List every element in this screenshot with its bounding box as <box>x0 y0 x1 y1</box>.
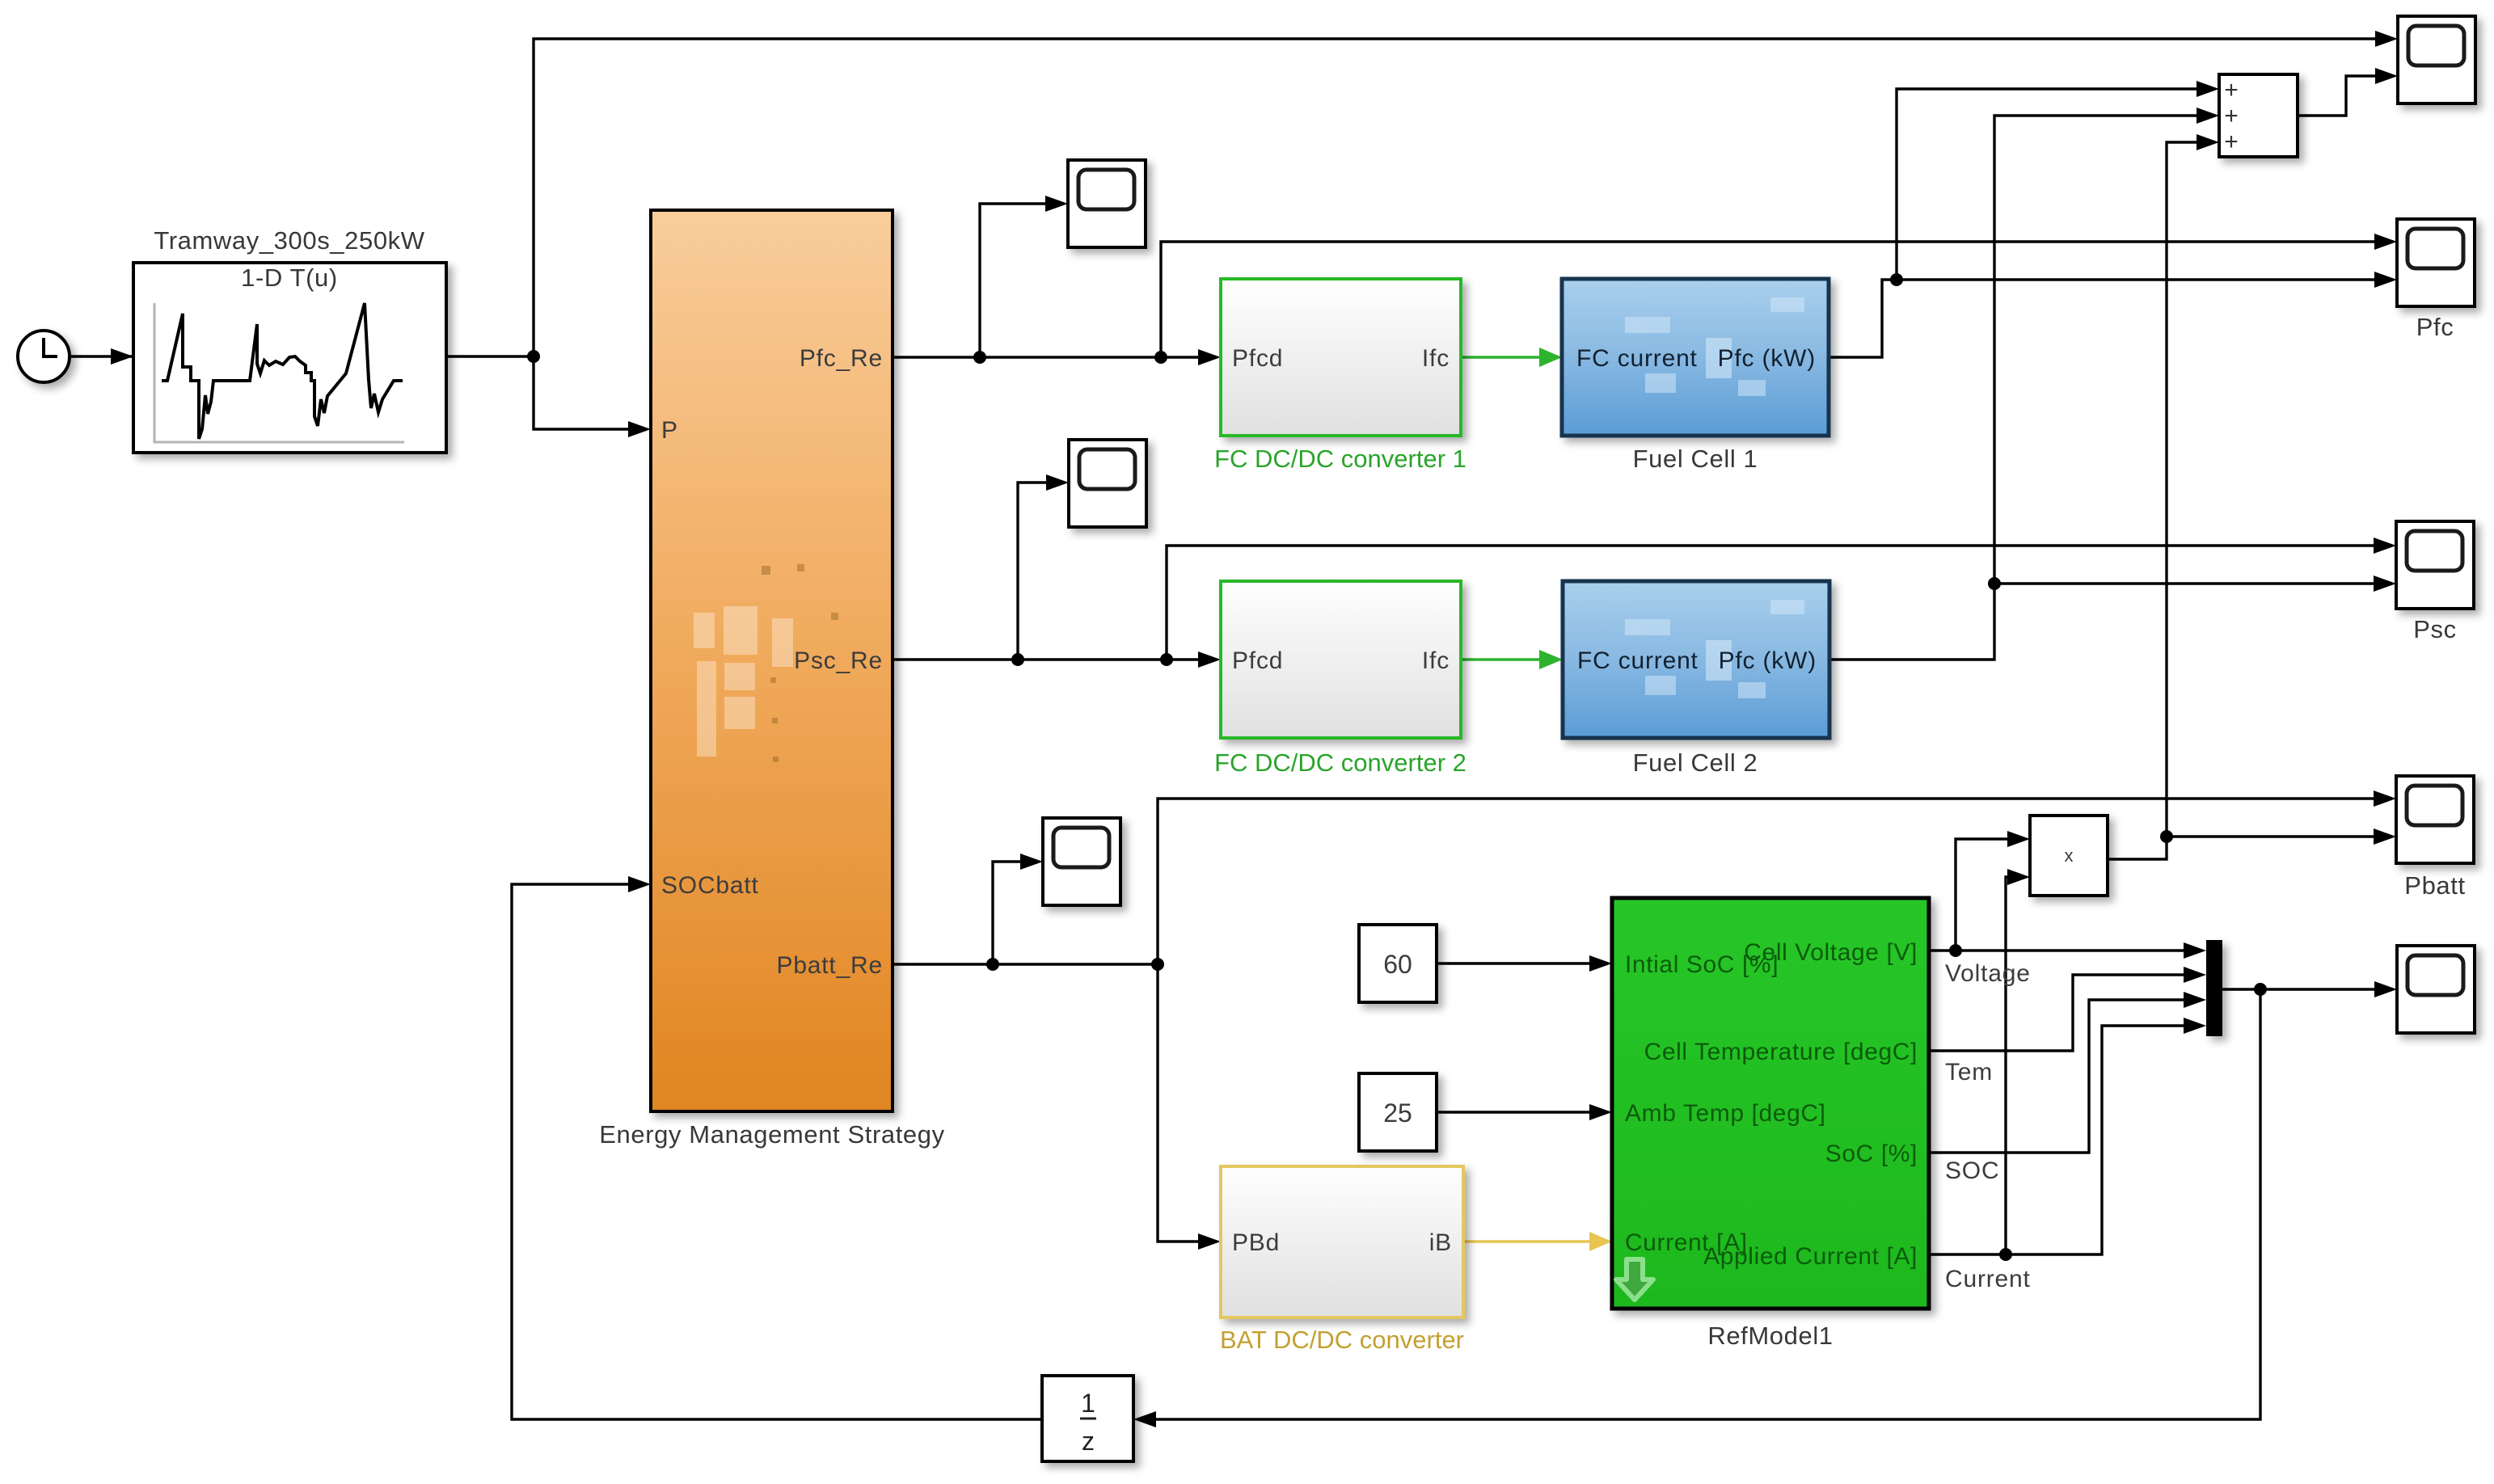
Voltage net label <box>1945 960 2031 987</box>
svg-text:Cell Voltage [V]: Cell Voltage [V] <box>1744 939 1918 966</box>
wire Cell Voltage output to mux input 1 <box>1929 942 2206 959</box>
Pfc scope <box>2397 219 2475 306</box>
svg-text:Pfc (kW): Pfc (kW) <box>1719 647 1817 674</box>
svg-text:Cell Temperature [degC]: Cell Temperature [degC] <box>1644 1039 1918 1065</box>
RefModel1 label <box>1707 1322 1833 1350</box>
Fuel Cell 1 label <box>1633 445 1758 473</box>
node junction on Pfc_Re at scope branch <box>973 351 986 364</box>
svg-text:Pfc (kW): Pfc (kW) <box>1718 345 1816 372</box>
node junction on Fuel Cell 1 output <box>1890 273 1903 286</box>
EMS block Energy Management Strategy <box>651 210 893 1111</box>
wire demand to top scope input 1 <box>534 31 2398 356</box>
lookup table title <box>154 226 424 255</box>
node junction on Pfc_Re at Pfc scope branch <box>1154 351 1167 364</box>
svg-text:Psc_Re: Psc_Re <box>794 647 883 674</box>
sum block <box>2219 74 2298 157</box>
svg-text:x: x <box>2065 845 2074 866</box>
svg-text:60: 60 <box>1383 950 1412 979</box>
svg-text:Pbatt: Pbatt <box>2404 871 2465 900</box>
svg-text:FC DC/DC converter 2: FC DC/DC converter 2 <box>1214 748 1466 777</box>
svg-text:Pfcd: Pfcd <box>1232 647 1283 674</box>
svg-text:Pfcd: Pfcd <box>1232 345 1283 372</box>
product block <box>2030 816 2108 896</box>
svg-text:+: + <box>2224 77 2239 103</box>
FC DC/DC converter 1 label <box>1214 445 1466 473</box>
svg-text:FC current: FC current <box>1577 647 1699 674</box>
wire lookup table output to junction <box>446 355 534 357</box>
svg-text:+: + <box>2224 103 2239 129</box>
floating scope 3 <box>1043 818 1120 905</box>
wire Cell Temperature output to mux input 2 <box>1929 967 2206 1051</box>
svg-text:Amb Temp [degC]: Amb Temp [degC] <box>1625 1100 1826 1127</box>
constant block 60 <box>1359 925 1437 1002</box>
wire Psc_Re branch to Psc scope input 1 <box>1167 538 2396 660</box>
svg-text:z: z <box>1082 1427 1095 1456</box>
svg-text:1-D T(u): 1-D T(u) <box>241 263 338 292</box>
svg-text:SOCbatt: SOCbatt <box>661 872 759 899</box>
svg-text:SOC: SOC <box>1945 1157 1999 1184</box>
svg-text:P: P <box>661 417 678 444</box>
svg-text:Fuel Cell 2: Fuel Cell 2 <box>1633 748 1758 777</box>
node junction on product output riser <box>2160 830 2173 843</box>
wire Pbatt_Re branch to floating scope 3 <box>993 854 1043 964</box>
wire Fuel Cell 1 output up to Pfc scope input 2 <box>1829 272 2397 357</box>
node junction on Pbatt_Re at scope branch <box>986 958 999 971</box>
Pbatt scope label <box>2404 871 2465 900</box>
wire product output riser to sum input 3 <box>2108 134 2219 859</box>
Fuel Cell 1 block <box>1562 279 1829 436</box>
svg-text:Psc: Psc <box>2413 615 2456 643</box>
node junction on Voltage wire <box>1949 944 1962 957</box>
wire Fuel Cell 1 branch to sum input 1 <box>1897 81 2219 280</box>
Fuel Cell 2 block <box>1563 581 1829 738</box>
wire mux output to bottom-right scope <box>2222 981 2397 997</box>
wire Psc_Re branch to floating scope 2 <box>1018 474 1069 660</box>
wire Pfc_Re branch to floating scope 1 <box>980 196 1068 357</box>
svg-text:FC current: FC current <box>1576 345 1698 372</box>
floating scope 1 <box>1068 160 1146 247</box>
svg-text:Ifc: Ifc <box>1422 345 1450 372</box>
node junction on Fuel Cell 2 output <box>1988 577 2001 590</box>
wire iB to RefModel1 Current input (yellow) <box>1463 1232 1612 1251</box>
floating scope 2 <box>1069 440 1146 527</box>
RefModel1 block <box>1612 898 1929 1309</box>
BAT DC/DC converter label <box>1220 1326 1464 1354</box>
node junction on Pbatt_Re at riser <box>1151 958 1164 971</box>
wire Fuel Cell 2 branch to sum input 2 <box>1994 108 2219 584</box>
constant block 25 <box>1359 1073 1437 1151</box>
svg-text:Voltage: Voltage <box>1945 960 2031 987</box>
svg-text:PBd: PBd <box>1232 1229 1280 1256</box>
bottom-right scope <box>2397 946 2475 1033</box>
wire constant 60 to Intial SoC <box>1437 955 1612 972</box>
clock block <box>18 331 70 382</box>
node junction A on demand signal <box>527 350 540 363</box>
wire Pbatt_Re trunk <box>893 963 1158 965</box>
node junction on Current wire <box>1999 1248 2012 1261</box>
node junction on mux output <box>2254 983 2267 996</box>
wire Voltage branch to product input 1 <box>1956 831 2030 951</box>
SOC net label <box>1945 1157 1999 1184</box>
node junction on Psc_Re at scope branch <box>1011 653 1024 666</box>
wire Applied Current output to mux input 4 <box>1929 1018 2206 1254</box>
mux block <box>2206 940 2222 1036</box>
wire SoC output to mux input 3 <box>1929 992 2206 1153</box>
svg-text:Fuel Cell 1: Fuel Cell 1 <box>1633 445 1758 473</box>
wire Fuel Cell 2 output up to Psc scope input 2 <box>1829 575 2396 660</box>
wire clock to lookup table <box>71 348 133 365</box>
Pbatt scope <box>2396 776 2474 863</box>
svg-text:Applied Current [A]: Applied Current [A] <box>1703 1243 1918 1270</box>
svg-text:iB: iB <box>1429 1229 1452 1256</box>
svg-text:Energy Management Strategy: Energy Management Strategy <box>599 1120 944 1149</box>
wire feedback loop down to unit delay <box>1133 989 2260 1427</box>
svg-text:1: 1 <box>1081 1389 1095 1418</box>
svg-text:Tem: Tem <box>1945 1059 1993 1086</box>
BAT DC/DC converter block <box>1221 1166 1463 1317</box>
wire product branch to Pbatt scope input 2 <box>2167 828 2396 845</box>
lookup table block Tramway_300s_250kW <box>133 263 446 453</box>
svg-text:Pfc_Re: Pfc_Re <box>800 345 883 372</box>
wire unit delay output to EMS SOCbatt <box>512 876 1042 1419</box>
FC DC/DC converter 2 label <box>1214 748 1466 777</box>
wire Pfc_Re to FC DC/DC converter 1 <box>893 349 1221 365</box>
Psc scope <box>2396 521 2474 609</box>
svg-text:+: + <box>2224 129 2239 155</box>
Pfc scope label <box>2416 313 2454 341</box>
svg-text:RefModel1: RefModel1 <box>1707 1322 1833 1350</box>
node junction on Psc_Re at Psc scope branch <box>1160 653 1173 666</box>
wire Psc_Re to FC DC/DC converter 2 <box>893 651 1221 668</box>
wire sum output to top scope input 2 <box>2298 68 2398 116</box>
svg-text:Tramway_300s_250kW: Tramway_300s_250kW <box>154 226 424 255</box>
svg-text:FC DC/DC converter 1: FC DC/DC converter 1 <box>1214 445 1466 473</box>
top-right scope <box>2398 16 2475 103</box>
unit delay block 1/z <box>1042 1376 1133 1461</box>
Psc scope label <box>2413 615 2456 643</box>
Tem net label <box>1945 1059 1993 1086</box>
wire Pbatt_Re branch down to BAT DC/DC converter PBd <box>1158 964 1221 1250</box>
Current net label <box>1945 1266 2031 1292</box>
wire Pfc_Re branch to Pfc scope input 1 <box>1161 234 2397 357</box>
wire Ifc1 to Fuel Cell 1 (green) <box>1461 348 1562 367</box>
svg-text:Pbatt_Re: Pbatt_Re <box>777 952 883 979</box>
svg-text:Ifc: Ifc <box>1422 647 1450 674</box>
svg-text:BAT DC/DC converter: BAT DC/DC converter <box>1220 1326 1464 1354</box>
FC DC/DC converter 2 block <box>1221 581 1461 738</box>
wire Current branch to product input 2 <box>2006 869 2030 1254</box>
svg-text:Pfc: Pfc <box>2416 313 2454 341</box>
FC DC/DC converter 1 block <box>1221 279 1461 436</box>
wire constant 25 to Amb Temp <box>1437 1104 1612 1120</box>
svg-text:Current: Current <box>1945 1266 2031 1292</box>
wire Ifc2 to Fuel Cell 2 (green) <box>1461 650 1563 669</box>
wire demand to EMS P input <box>534 356 651 437</box>
Fuel Cell 2 label <box>1633 748 1758 777</box>
wire Pbatt_Re branch to Pbatt scope input 1 <box>1158 790 2396 964</box>
svg-text:SoC [%]: SoC [%] <box>1825 1140 1918 1167</box>
svg-text:25: 25 <box>1383 1098 1412 1128</box>
EMS label <box>599 1120 944 1149</box>
